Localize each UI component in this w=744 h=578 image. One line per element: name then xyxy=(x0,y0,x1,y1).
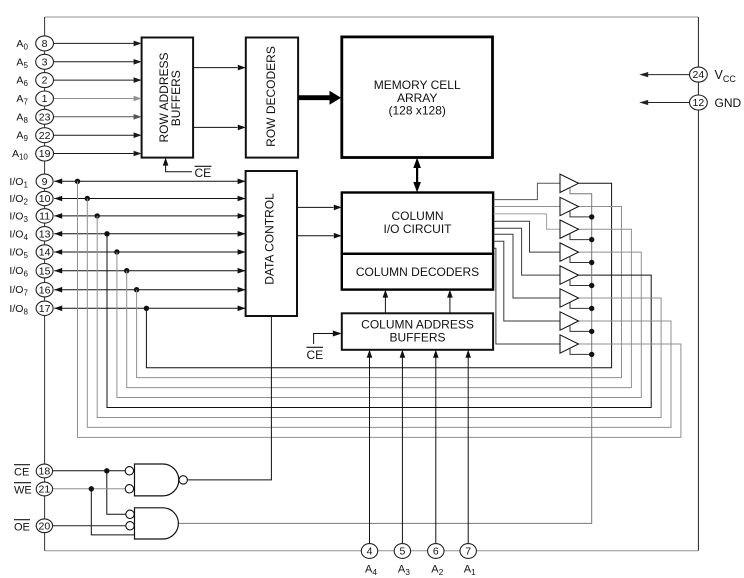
pin 19 (A10) xyxy=(36,146,54,161)
wire column I/O to buffer 5 input xyxy=(494,228,561,275)
bubble U1 input A xyxy=(125,467,133,475)
wire CE branch to OE gate xyxy=(107,471,126,515)
bubble U2 input A xyxy=(126,510,134,518)
wire buffer 1 output to I/O8 xyxy=(146,183,611,367)
pin 16 (I/O7) xyxy=(36,283,53,297)
buffer amplifier 1 xyxy=(560,174,579,192)
svg-text:A3: A3 xyxy=(398,564,410,578)
block DATA CONTROL xyxy=(246,171,297,316)
wire buffer 6 output to I/O3 xyxy=(97,216,661,418)
node I/O6 junction xyxy=(124,268,129,273)
svg-text:1: 1 xyxy=(42,93,48,105)
wire A4 to column address buffers xyxy=(369,358,371,544)
wire data control to column I/O (lower) xyxy=(297,235,334,237)
wire I/O4 line xyxy=(54,233,245,235)
pin 24 (Vcc) xyxy=(690,67,708,82)
svg-text:COLUMN DECODERS: COLUMN DECODERS xyxy=(356,265,479,279)
wire column I/O to buffer 8 input xyxy=(494,248,561,344)
wire buffer 4 enable tap xyxy=(570,256,592,262)
svg-text:MEMORY CELL: MEMORY CELL xyxy=(374,78,461,92)
svg-text:DATA CONTROL: DATA CONTROL xyxy=(262,193,276,285)
svg-text:BUFFERS: BUFFERS xyxy=(389,331,445,345)
node buffer 7 enable junction xyxy=(589,329,594,334)
pin 8 (A0) xyxy=(36,36,54,51)
wire column I/O to buffer 2 input xyxy=(494,206,561,208)
wire CE to row address buffers xyxy=(166,164,192,172)
wire column I/O to buffer 1 input xyxy=(494,183,561,199)
svg-text:12: 12 xyxy=(693,97,705,109)
wire column I/O to buffer 6 input xyxy=(494,234,561,298)
svg-text:A9: A9 xyxy=(16,130,28,144)
wire data control to column I/O (upper) xyxy=(297,206,334,208)
wire I/O5 line xyxy=(54,251,245,253)
svg-text:6: 6 xyxy=(433,546,439,558)
wire column address buffers to column decoders (left) xyxy=(384,298,386,314)
wire address input A5 xyxy=(53,61,134,63)
svg-text:A0: A0 xyxy=(16,38,28,52)
wire GND arrow xyxy=(647,102,690,104)
wire output enable chain from OE gate xyxy=(178,188,591,524)
wire I/O8 line xyxy=(54,307,245,309)
wire Vcc supply arrow xyxy=(647,74,690,76)
buffer amplifier 8 xyxy=(560,335,579,353)
wire buffer 7 output to I/O2 xyxy=(87,199,671,428)
node buffer 2 enable junction xyxy=(589,214,594,219)
gate U1 NAND (CE,WE) write control xyxy=(135,464,179,496)
wire CE to column address buffers xyxy=(314,334,334,345)
svg-text:WE: WE xyxy=(14,484,32,496)
node I/O2 junction xyxy=(85,196,90,201)
pin 4 (A4) xyxy=(361,544,377,559)
wire address input A9 xyxy=(53,134,134,136)
wire CE input xyxy=(53,470,126,472)
svg-text:A4: A4 xyxy=(365,564,377,578)
svg-text:2: 2 xyxy=(42,75,48,87)
svg-text:11: 11 xyxy=(39,211,50,223)
node I/O4 junction xyxy=(104,231,109,236)
node I/O5 junction xyxy=(114,249,119,254)
pin 7 (A1) xyxy=(460,544,476,559)
svg-text:A2: A2 xyxy=(431,564,443,578)
svg-text:I/O2: I/O2 xyxy=(9,193,28,207)
svg-text:ROW DECODERS: ROW DECODERS xyxy=(264,46,278,147)
svg-text:13: 13 xyxy=(39,228,51,240)
pin 9 (I/O1) xyxy=(36,174,53,188)
wire column I/O to buffer 7 input xyxy=(494,241,561,321)
buffer amplifier 3 xyxy=(560,220,579,238)
block ROW ADDRESS BUFFERS xyxy=(142,38,194,158)
wire row address buffers to row decoders (upper) xyxy=(193,67,237,69)
svg-text:4: 4 xyxy=(367,546,373,558)
node I/O1 junction xyxy=(75,179,80,184)
wire chip border bottom xyxy=(45,550,699,552)
pin 17 (I/O8) xyxy=(36,301,53,315)
svg-text:CE: CE xyxy=(307,348,324,362)
pin 15 (I/O6) xyxy=(36,264,53,278)
svg-text:I/O8: I/O8 xyxy=(9,303,28,317)
block COLUMN DECODERS xyxy=(342,254,493,290)
wire A2 to column address buffers xyxy=(435,358,437,544)
bubble U1 output xyxy=(179,476,187,484)
wire A3 to column address buffers xyxy=(401,358,403,544)
svg-text:COLUMN ADDRESS: COLUMN ADDRESS xyxy=(361,318,474,332)
pin 3 (A5) xyxy=(36,54,54,69)
wire address input A10 xyxy=(53,153,134,155)
wire I/O1 line xyxy=(54,180,245,182)
wire chip border left xyxy=(44,17,46,551)
wire column I/O to buffer 3 input xyxy=(494,214,561,229)
wire I/O6 line xyxy=(54,270,245,272)
wire I/O3 line xyxy=(54,215,245,217)
svg-text:(128 x128): (128 x128) xyxy=(389,104,446,118)
pin 13 (I/O4) xyxy=(36,227,53,241)
wire buffer 3 enable tap xyxy=(570,233,592,239)
buffer amplifier 2 xyxy=(560,197,579,215)
wire WE input xyxy=(53,488,126,490)
wire buffer 2 output to I/O7 xyxy=(137,207,622,378)
svg-text:10: 10 xyxy=(39,193,51,205)
pin 10 (I/O2) xyxy=(36,191,53,205)
wire buffer 7 enable tap xyxy=(570,325,592,331)
wire A1 to column address buffers xyxy=(467,358,469,544)
svg-text:23: 23 xyxy=(39,111,51,123)
wire row address buffers to row decoders (lower) xyxy=(193,126,237,128)
svg-text:7: 7 xyxy=(465,546,471,558)
wire buffer 8 output to I/O1 xyxy=(78,181,681,437)
svg-text:8: 8 xyxy=(42,38,48,50)
pin 2 (A6) xyxy=(36,73,54,88)
gate U2 AND (CE,OE,WE) output enable xyxy=(135,508,179,539)
wire buffer 5 output to I/O4 xyxy=(107,234,651,408)
wire address input A6 xyxy=(53,79,134,81)
node I/O7 junction xyxy=(134,287,139,292)
svg-text:3: 3 xyxy=(42,56,48,68)
wire row decoders to memory cell array (thick arrow) xyxy=(298,95,330,100)
wire I/O2 line xyxy=(54,198,245,200)
svg-text:22: 22 xyxy=(39,130,51,142)
svg-text:16: 16 xyxy=(39,284,51,296)
wire buffer 4 output to I/O5 xyxy=(117,252,641,398)
wire address input A0 xyxy=(53,42,134,44)
pin 14 (I/O5) xyxy=(36,245,53,259)
pin 5 (A3) xyxy=(394,544,410,559)
wire buffer 5 enable tap xyxy=(570,279,592,285)
wire chip border right xyxy=(697,17,699,551)
pin 20 (OE) xyxy=(36,519,52,533)
bubble U1 input B xyxy=(125,485,133,493)
pin 21 (WE) xyxy=(36,482,52,496)
svg-text:OE: OE xyxy=(14,521,30,533)
svg-text:CE: CE xyxy=(14,466,29,478)
node buffer 4 enable junction xyxy=(589,260,594,265)
svg-text:VCC: VCC xyxy=(715,68,737,84)
wire buffer 3 output to I/O6 xyxy=(127,229,632,387)
wire I/O7 line xyxy=(54,289,245,291)
wire buffer 8 enable tap xyxy=(570,348,592,354)
svg-text:14: 14 xyxy=(39,247,51,259)
node buffer 8 enable junction xyxy=(589,352,594,357)
wire U1 output to data control xyxy=(187,316,271,480)
svg-text:17: 17 xyxy=(39,303,51,315)
svg-text:15: 15 xyxy=(39,265,51,277)
svg-text:20: 20 xyxy=(39,520,51,532)
wire column I/O to buffer 4 input xyxy=(494,221,561,252)
wire buffer 2 enable tap xyxy=(570,211,592,217)
wire column address buffers to column decoders (right) xyxy=(449,298,451,314)
svg-text:CE: CE xyxy=(195,166,212,180)
svg-text:I/O CIRCUIT: I/O CIRCUIT xyxy=(384,222,453,236)
svg-text:COLUMN: COLUMN xyxy=(391,209,443,223)
svg-text:A5: A5 xyxy=(16,56,28,70)
bubble U2 input B xyxy=(126,522,134,530)
svg-text:A7: A7 xyxy=(16,93,28,107)
block COLUMN ADDRESS BUFFERS xyxy=(342,313,493,350)
pin 22 (A9) xyxy=(36,128,54,143)
node buffer 3 enable junction xyxy=(589,237,594,242)
buffer amplifier 6 xyxy=(560,289,579,307)
node I/O3 junction xyxy=(95,213,100,218)
node buffer 5 enable junction xyxy=(589,283,594,288)
wire OE input xyxy=(53,525,126,527)
svg-text:9: 9 xyxy=(42,176,48,188)
svg-text:A10: A10 xyxy=(12,148,28,162)
wire memory cell array to column I/O circuit (double arrow) xyxy=(416,163,418,187)
node buffer 6 enable junction xyxy=(589,306,594,311)
pin 11 (I/O3) xyxy=(36,209,53,223)
block COLUMN I/O CIRCUIT xyxy=(342,193,493,254)
svg-text:18: 18 xyxy=(39,466,51,478)
pin 18 (CE) xyxy=(36,464,52,478)
svg-text:19: 19 xyxy=(39,148,51,160)
wire address input A8 xyxy=(53,116,134,118)
svg-text:GND: GND xyxy=(715,96,742,110)
buffer amplifier 7 xyxy=(560,312,579,330)
svg-text:A6: A6 xyxy=(16,75,28,89)
svg-text:I/O7: I/O7 xyxy=(9,284,28,298)
node I/O8 junction xyxy=(144,306,149,311)
svg-text:5: 5 xyxy=(399,546,405,558)
node CE junction xyxy=(104,468,109,473)
svg-text:I/O5: I/O5 xyxy=(9,247,28,261)
wire address input A7 xyxy=(53,98,134,100)
buffer amplifier 5 xyxy=(560,266,579,284)
wire buffer 6 enable tap xyxy=(570,302,592,308)
svg-text:21: 21 xyxy=(39,484,51,496)
wire WE branch to OE gate xyxy=(91,489,134,535)
node WE junction xyxy=(89,486,94,491)
pin 6 (A2) xyxy=(428,544,444,559)
pin 12 (GND) xyxy=(690,95,708,110)
svg-text:I/O3: I/O3 xyxy=(9,210,28,224)
svg-text:A1: A1 xyxy=(464,564,476,578)
svg-text:I/O1: I/O1 xyxy=(9,176,28,190)
block MEMORY CELL ARRAY xyxy=(342,37,493,158)
pin 1 (A7) xyxy=(36,91,54,106)
svg-text:I/O6: I/O6 xyxy=(9,265,28,279)
block ROW DECODERS xyxy=(246,38,298,158)
wire chip border top xyxy=(45,16,699,18)
pin 23 (A8) xyxy=(36,109,54,124)
svg-text:24: 24 xyxy=(693,69,705,81)
buffer amplifier 4 xyxy=(560,243,579,261)
svg-text:I/O4: I/O4 xyxy=(9,228,28,242)
svg-text:BUFFERS: BUFFERS xyxy=(169,70,183,126)
svg-text:A8: A8 xyxy=(16,111,28,125)
